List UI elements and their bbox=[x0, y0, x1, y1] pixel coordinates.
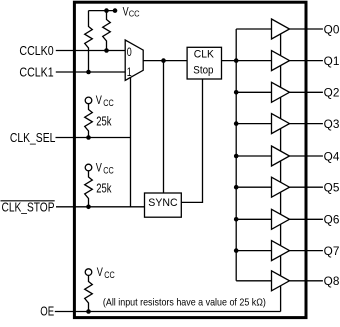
junction dot R2 / CCLK0 bbox=[104, 48, 109, 53]
wire mux output down to SYNC bbox=[163, 61, 165, 193]
junction dot bus Q1 bbox=[234, 58, 239, 63]
wire mux select (from CLK_SEL) bbox=[130, 76, 132, 207]
svg-text:CC: CC bbox=[129, 9, 140, 19]
SYNC block bbox=[145, 193, 182, 217]
junction dot bus Q3 bbox=[234, 121, 239, 126]
wire bus to buffer Q5 bbox=[236, 186, 271, 188]
junction dot bus Q2 bbox=[234, 90, 239, 95]
wire buffer output Q7 bbox=[290, 250, 323, 252]
wire bus to buffer Q4 bbox=[236, 155, 271, 157]
wire CLK_STOP to SYNC bbox=[56, 206, 145, 208]
wire buffer output Q8 bbox=[290, 280, 323, 282]
junction dot bus Q4 bbox=[234, 154, 239, 159]
wire bus to buffer Q6 bbox=[236, 218, 271, 220]
svg-text:Q2: Q2 bbox=[324, 88, 340, 100]
CLK_STOP pin label (active low) bbox=[1, 200, 55, 214]
svg-text:V: V bbox=[96, 161, 102, 175]
svg-text:Q4: Q4 bbox=[324, 151, 340, 163]
wire bus to buffer Q3 bbox=[236, 123, 271, 125]
buffer U9 (Q7) bbox=[272, 241, 290, 261]
junction dot R2 to Vcc rail bbox=[104, 8, 109, 13]
svg-text:CC: CC bbox=[103, 166, 114, 176]
svg-text:1: 1 bbox=[127, 67, 132, 79]
wire bus to buffer Q8 bbox=[236, 280, 271, 282]
resistor R4 (CLK_STOP pull-up) bbox=[85, 171, 93, 207]
svg-text:0: 0 bbox=[127, 47, 132, 59]
wire CLK_SEL to mux select line bbox=[56, 137, 131, 139]
wire CLK Stop bottom to SYNC output bbox=[181, 79, 202, 202]
svg-text:CLK_SEL: CLK_SEL bbox=[10, 131, 56, 145]
CLK Stop block bbox=[187, 47, 221, 79]
Vcc rail wire (top) bbox=[89, 10, 116, 12]
svg-text:CLK_STOP: CLK_STOP bbox=[2, 200, 55, 214]
resistor R3 (CLK_SEL pull-up) bbox=[85, 104, 93, 138]
svg-text:Q5: Q5 bbox=[324, 183, 340, 195]
wire buffer output Q4 bbox=[290, 155, 323, 157]
buffer U2 (Q0) bbox=[272, 19, 290, 39]
svg-text:SYNC: SYNC bbox=[148, 197, 177, 209]
buffer U6 (Q4) bbox=[272, 146, 290, 166]
svg-text:Q3: Q3 bbox=[324, 119, 340, 131]
svg-text:Stop: Stop bbox=[193, 65, 213, 77]
Vcc terminal (CLK_SEL pull-up) bbox=[85, 97, 92, 104]
junction dot R3 / CLK_SEL bbox=[86, 135, 91, 140]
svg-text:Q7: Q7 bbox=[324, 246, 340, 258]
resistor R1 (CCLK1 pull-up, 25k) bbox=[85, 11, 93, 72]
Vcc label (top rail) bbox=[123, 6, 140, 18]
output enable chain line bbox=[280, 29, 282, 312]
wire buffer output Q0 bbox=[290, 28, 323, 30]
wire buffer output Q5 bbox=[290, 186, 323, 188]
wire buffer output Q1 bbox=[290, 60, 323, 62]
wire bus to buffer Q1 bbox=[236, 60, 271, 62]
junction dot R4 / CLK_STOP bbox=[86, 205, 91, 210]
wire bus to buffer Q0 bbox=[236, 28, 271, 30]
Vcc terminal (OE pull-up) bbox=[85, 269, 92, 276]
svg-text:OE: OE bbox=[40, 304, 54, 318]
svg-text:CC: CC bbox=[103, 98, 114, 108]
wire bus to buffer Q7 bbox=[236, 250, 271, 252]
svg-text:Q8: Q8 bbox=[324, 276, 340, 288]
wire CCLK1 to mux input 1 bbox=[56, 71, 125, 73]
svg-text:CC: CC bbox=[104, 270, 115, 280]
junction dot bus Q5 bbox=[234, 185, 239, 190]
svg-text:(All input resistors have a va: (All input resistors have a value of 25 … bbox=[103, 297, 266, 308]
svg-text:Q1: Q1 bbox=[324, 56, 340, 68]
resistor R5 (OE pull-up) bbox=[85, 275, 93, 311]
Vcc label (CLK_SEL pull-up) bbox=[96, 93, 114, 108]
resistor R2 (CCLK0 pull-up, 25k) bbox=[103, 11, 111, 51]
Vcc rail terminal dot bbox=[113, 8, 118, 13]
buffer U5 (Q3) bbox=[272, 114, 290, 134]
junction dot R1 / CCLK1 bbox=[86, 70, 91, 75]
IC boundary box bbox=[74, 2, 306, 317]
svg-text:CLK: CLK bbox=[194, 49, 215, 61]
wire mux output to clock bus bbox=[143, 60, 236, 62]
buffer U7 (Q5) bbox=[272, 177, 290, 197]
Vcc terminal (CLK_STOP pull-up) bbox=[85, 164, 92, 171]
svg-text:CCLK1: CCLK1 bbox=[19, 66, 53, 80]
buffer U4 (Q2) bbox=[272, 82, 290, 102]
svg-text:V: V bbox=[96, 93, 102, 107]
wire buffer output Q2 bbox=[290, 91, 323, 93]
buffer U10 (Q8) bbox=[272, 271, 290, 291]
wire buffer output Q3 bbox=[290, 123, 323, 125]
clock distribution bus bbox=[235, 29, 237, 281]
junction dot mux output node bbox=[161, 58, 166, 63]
svg-text:25k: 25k bbox=[96, 182, 112, 196]
svg-text:V: V bbox=[97, 265, 103, 279]
svg-text:Q0: Q0 bbox=[324, 24, 340, 36]
wire CCLK0 to mux input 0 bbox=[56, 50, 125, 52]
svg-text:25k: 25k bbox=[96, 115, 112, 129]
svg-text:Q6: Q6 bbox=[324, 215, 340, 227]
wire bus to buffer Q2 bbox=[236, 91, 271, 93]
svg-text:CCLK0: CCLK0 bbox=[19, 44, 53, 58]
mux U1 (2:1 clock mux) bbox=[125, 40, 143, 80]
junction dot bus Q7 bbox=[234, 248, 239, 253]
wire buffer output Q6 bbox=[290, 218, 323, 220]
buffer U3 (Q1) bbox=[272, 51, 290, 71]
wire OE to buffer enable chain bbox=[55, 311, 281, 313]
buffer U8 (Q6) bbox=[272, 209, 290, 229]
Vcc label (OE pull-up) bbox=[97, 265, 115, 280]
junction dot bus Q6 bbox=[234, 217, 239, 222]
Vcc label (CLK_STOP pull-up) bbox=[96, 161, 114, 176]
junction dot R5 / OE bbox=[86, 309, 91, 314]
